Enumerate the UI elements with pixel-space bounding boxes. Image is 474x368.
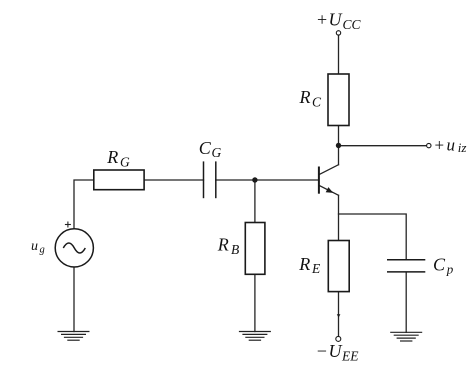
svg-text:B: B bbox=[231, 242, 239, 257]
svg-text:G: G bbox=[212, 145, 222, 160]
svg-text:EE: EE bbox=[341, 348, 359, 363]
svg-text:R: R bbox=[299, 87, 311, 107]
svg-text:R: R bbox=[106, 147, 118, 167]
svg-text:C: C bbox=[312, 95, 322, 110]
svg-text:G: G bbox=[120, 155, 130, 170]
svg-text:u: u bbox=[447, 136, 456, 155]
svg-text:C: C bbox=[199, 138, 212, 158]
svg-text:iz: iz bbox=[458, 140, 467, 155]
svg-text:R: R bbox=[298, 254, 310, 274]
svg-text:C: C bbox=[433, 255, 446, 275]
svg-text:g: g bbox=[40, 245, 45, 256]
svg-text:U: U bbox=[329, 341, 343, 361]
svg-text:E: E bbox=[311, 261, 321, 276]
svg-text:−: − bbox=[317, 341, 327, 361]
svg-text:CC: CC bbox=[343, 17, 362, 32]
svg-text:u: u bbox=[31, 239, 38, 254]
svg-text:+: + bbox=[435, 135, 445, 154]
svg-text:+: + bbox=[317, 9, 327, 29]
svg-text:R: R bbox=[217, 234, 229, 254]
svg-text:p: p bbox=[446, 261, 454, 276]
svg-text:U: U bbox=[329, 9, 343, 29]
